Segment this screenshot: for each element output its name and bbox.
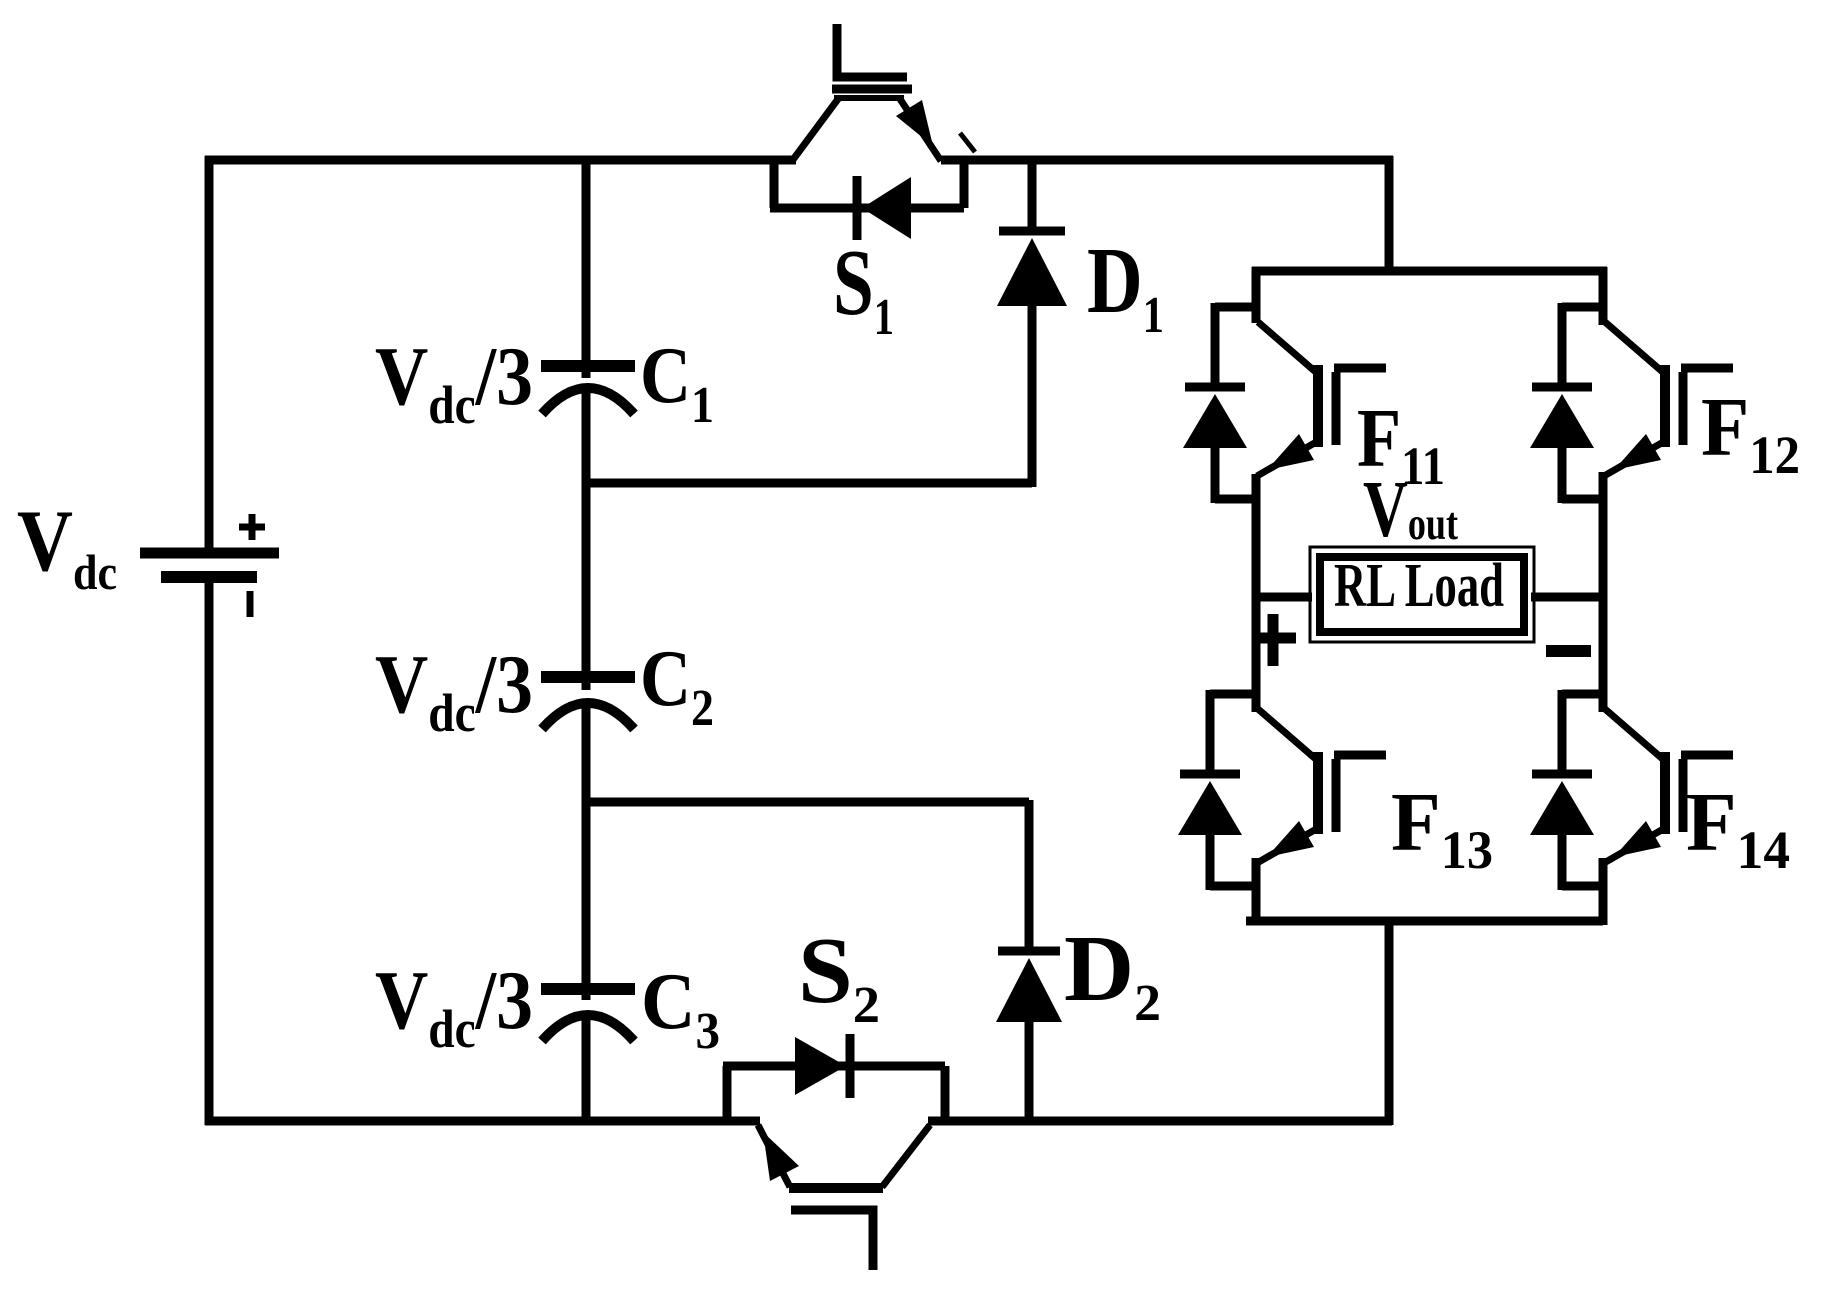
wire bottom rail right segment [928, 1117, 1392, 1126]
wire capacitor bus segment above C1 [582, 156, 591, 378]
IGBT F13 emitter arrow [1267, 821, 1314, 857]
IGBT F14 body bar [1660, 752, 1670, 834]
switch S1 IGBT emitter arrow [896, 100, 933, 146]
wire capacitor bus segment C1 to C2 [582, 388, 591, 690]
switch S2 antiparallel diode [795, 1034, 850, 1098]
diode D1 [997, 160, 1067, 487]
IGBT F11 antiparallel diode branch wires [1215, 303, 1256, 503]
switch S1 IGBT gate bar [832, 85, 912, 94]
IGBT F12 antiparallel diode branch wires [1562, 303, 1603, 503]
wire H-bridge left column middle (output node +) [1252, 474, 1261, 712]
switch S1 IGBT body [792, 98, 941, 161]
wire capacitor bus segment below C3 [582, 1014, 591, 1125]
IGBT F13 gate bar [1332, 759, 1341, 832]
switch S2 IGBT emitter arrow [763, 1132, 799, 1181]
wire left rail upper (battery + up to top rail) [205, 156, 214, 549]
wire H-bridge bottom rail [1246, 917, 1603, 926]
capacitor C3 [541, 989, 635, 1041]
switch S2 IGBT gate bar and lead [791, 1210, 873, 1270]
IGBT F11 body bar [1313, 365, 1323, 447]
IGBT F12 emitter lead [1604, 441, 1665, 476]
wire H-bridge bottom feed stub [1385, 921, 1394, 1125]
switch S1 antiparallel diode loop wires [770, 160, 964, 208]
wire top rail left segment (battery + to S1 collector) [205, 156, 796, 165]
IGBT F11 emitter arrow [1267, 434, 1314, 470]
switch S2 antiparallel diode loop wires [723, 1066, 945, 1122]
wire H-bridge top rail [1252, 267, 1607, 276]
wire H-bridge right column upper [1599, 267, 1608, 325]
wire tap node C1-C2 junction to D1 anode [586, 479, 1032, 488]
IGBT F12 emitter arrow [1614, 434, 1661, 470]
capacitor C1 [541, 366, 635, 414]
IGBT F11 antiparallel diode [1183, 387, 1247, 448]
IGBT F14 gate lead [1681, 751, 1733, 760]
IGBT F12 gate bar [1679, 372, 1688, 445]
wire bottom rail left segment [205, 1117, 760, 1126]
capacitor C2 [541, 677, 635, 729]
wire load right stub (- output) [1531, 593, 1607, 602]
wire top rail right segment (S1 emitter past D1 to H-bridge) [941, 156, 1393, 165]
IGBT F12 collector lead [1605, 322, 1665, 374]
battery minus terminal mark [247, 591, 254, 617]
battery Vdc source [140, 553, 279, 577]
IGBT F14 emitter arrow [1614, 821, 1661, 857]
IGBT F11 collector lead [1258, 322, 1318, 374]
wire H-bridge left column lower [1252, 858, 1261, 925]
stray mark near S1 emitter [960, 133, 975, 152]
wire H-bridge right column lower [1599, 858, 1608, 925]
wire H-bridge right column middle (output node -) [1599, 472, 1608, 712]
svg-text:RL Load: RL Load [1334, 552, 1504, 620]
IGBT F12 antiparallel diode [1530, 387, 1594, 448]
IGBT F13 antiparallel diode branch wires [1210, 690, 1256, 890]
IGBT F13 collector lead [1258, 709, 1318, 761]
diode D2 [996, 800, 1062, 1125]
wire load left stub (+ output) [1252, 593, 1312, 602]
IGBT F14 antiparallel diode [1530, 774, 1594, 835]
IGBT F14 gate bar [1679, 759, 1688, 832]
IGBT F11 gate bar [1332, 372, 1341, 445]
switch S1 antiparallel diode [857, 176, 911, 240]
IGBT F11 emitter lead [1257, 441, 1318, 476]
node - output polarity mark [1546, 645, 1591, 657]
IGBT F14 antiparallel diode branch wires [1562, 690, 1603, 890]
node + output polarity mark [1252, 614, 1296, 666]
wire right vertical drop to H-bridge top rail [1385, 156, 1394, 271]
IGBT F13 emitter lead [1257, 828, 1318, 863]
wire H-bridge left column upper [1252, 267, 1261, 323]
RL Load box [1310, 547, 1534, 642]
wire tap node C2-C3 junction to D2 cathode [586, 798, 1029, 807]
IGBT F14 emitter lead [1604, 828, 1665, 863]
wire left rail lower (battery - down to bottom rail) [205, 581, 214, 1125]
wire capacitor bus segment C2 to C3 [582, 703, 591, 1000]
IGBT F14 collector lead [1605, 709, 1665, 761]
IGBT F11 gate lead [1334, 364, 1386, 373]
IGBT F13 antiparallel diode [1178, 774, 1242, 835]
switch S2 IGBT body [758, 1125, 930, 1188]
battery plus terminal mark [239, 514, 265, 540]
IGBT F12 body bar [1660, 365, 1670, 447]
switch S1 IGBT gate lead [837, 24, 907, 77]
IGBT F13 gate lead [1334, 751, 1386, 760]
IGBT F12 gate lead [1681, 364, 1733, 373]
IGBT F13 body bar [1313, 752, 1323, 834]
